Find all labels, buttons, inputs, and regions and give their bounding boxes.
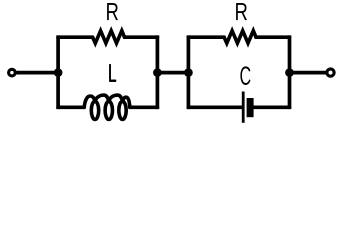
label R2 — [236, 3, 247, 20]
capacitor C1 plates — [242, 92, 245, 123]
node A junction dot — [54, 68, 63, 77]
top rail wire left block — [58, 35, 157, 39]
resistor R1 zigzag — [93, 31, 125, 44]
bottom rail wire right block — [188, 105, 289, 109]
output terminal (open circle) — [327, 69, 334, 76]
wire node B to output — [290, 71, 327, 75]
wire input to node A — [17, 71, 59, 75]
inductor L1 loops — [84, 95, 130, 119]
right block vertical wires — [188, 35, 289, 109]
label R1 — [107, 3, 118, 20]
node B junction dot — [184, 68, 193, 77]
wire node A to node B — [157, 71, 188, 75]
junction dot right block output — [285, 68, 294, 77]
bottom rail wire left block — [58, 105, 157, 109]
label C1 — [240, 66, 250, 85]
label L1 — [109, 64, 116, 81]
top rail wire right block — [188, 35, 289, 39]
input terminal (open circle) — [9, 69, 16, 76]
left block vertical wires — [58, 35, 157, 109]
resistor R2 zigzag — [224, 31, 256, 44]
junction dot left block output — [153, 68, 162, 77]
